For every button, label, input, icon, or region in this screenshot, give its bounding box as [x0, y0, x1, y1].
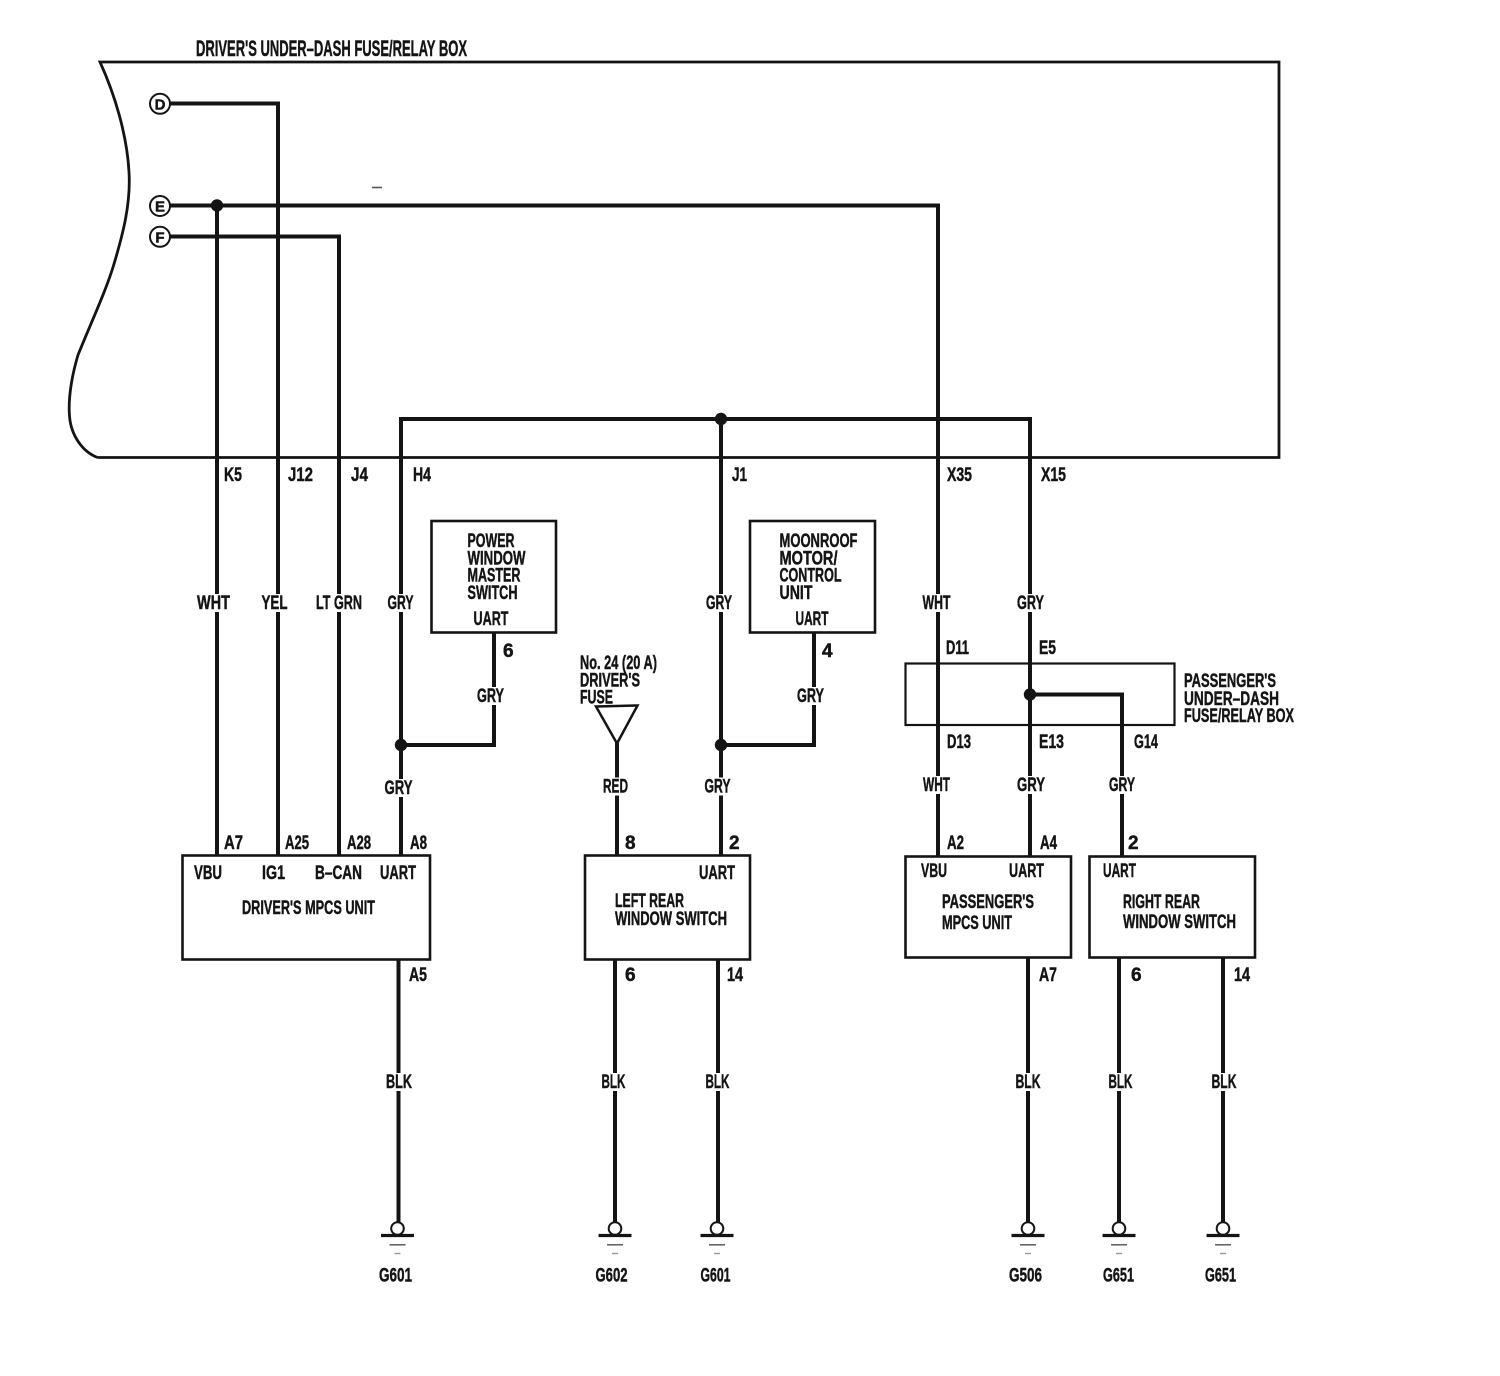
svg-text:J1: J1 [732, 465, 747, 486]
svg-text:BLK: BLK [386, 1072, 412, 1093]
svg-text:BLK: BLK [706, 1072, 730, 1093]
svg-text:A2: A2 [947, 833, 964, 854]
svg-text:6: 6 [625, 965, 636, 986]
svg-text:GRY: GRY [705, 777, 731, 798]
svg-text:A8: A8 [410, 833, 427, 854]
svg-text:UART: UART [796, 609, 829, 630]
svg-text:FUSE/RELAY BOX: FUSE/RELAY BOX [1184, 706, 1294, 727]
svg-text:A28: A28 [347, 833, 371, 854]
svg-text:DRIVER'S UNDER–DASH FUSE/RELAY: DRIVER'S UNDER–DASH FUSE/RELAY BOX [196, 36, 467, 61]
svg-text:UART: UART [699, 863, 735, 884]
svg-text:H4: H4 [413, 465, 431, 486]
svg-text:UART: UART [1009, 861, 1044, 882]
svg-text:GRY: GRY [385, 778, 413, 799]
svg-text:K5: K5 [224, 465, 242, 486]
svg-text:GRY: GRY [1109, 775, 1135, 796]
svg-text:2: 2 [1128, 833, 1139, 854]
svg-text:E5: E5 [1039, 638, 1056, 659]
svg-text:G651: G651 [1103, 1266, 1134, 1287]
svg-text:14: 14 [727, 965, 743, 986]
svg-text:UART: UART [380, 863, 416, 884]
svg-text:GRY: GRY [706, 593, 732, 614]
svg-text:B–CAN: B–CAN [315, 863, 362, 884]
svg-text:VBU: VBU [194, 863, 222, 884]
svg-text:BLK: BLK [1212, 1072, 1237, 1093]
svg-text:GRY: GRY [477, 686, 504, 707]
svg-text:4: 4 [822, 641, 833, 662]
svg-text:E13: E13 [1039, 732, 1064, 753]
svg-text:LT GRN: LT GRN [316, 593, 362, 614]
svg-text:RIGHT REAR: RIGHT REAR [1123, 892, 1200, 913]
svg-text:A25: A25 [285, 833, 309, 854]
svg-text:G601: G601 [379, 1266, 412, 1287]
svg-text:SWITCH: SWITCH [468, 583, 518, 604]
svg-text:G651: G651 [1205, 1266, 1236, 1287]
svg-text:G14: G14 [1134, 732, 1158, 753]
svg-text:UART: UART [474, 609, 509, 630]
svg-text:J12: J12 [288, 465, 313, 486]
svg-text:FUSE: FUSE [580, 688, 613, 709]
svg-text:GRY: GRY [1017, 593, 1044, 614]
svg-text:UART: UART [1103, 861, 1136, 882]
svg-text:WINDOW SWITCH: WINDOW SWITCH [1123, 912, 1236, 933]
svg-text:GRY: GRY [797, 686, 824, 707]
svg-text:A5: A5 [409, 965, 427, 986]
svg-text:2: 2 [729, 833, 740, 854]
svg-text:GRY: GRY [388, 593, 414, 614]
svg-text:8: 8 [625, 833, 636, 854]
svg-text:WHT: WHT [923, 593, 951, 614]
svg-text:BLK: BLK [602, 1072, 626, 1093]
svg-text:WINDOW SWITCH: WINDOW SWITCH [615, 909, 727, 930]
svg-text:14: 14 [1234, 965, 1250, 986]
svg-text:G602: G602 [596, 1266, 628, 1287]
svg-text:6: 6 [503, 641, 514, 662]
svg-text:D: D [155, 96, 166, 113]
svg-text:J4: J4 [351, 465, 368, 486]
svg-text:IG1: IG1 [262, 863, 285, 884]
svg-text:D11: D11 [946, 638, 969, 659]
svg-text:BLK: BLK [1016, 1072, 1041, 1093]
svg-text:GRY: GRY [1017, 775, 1045, 796]
svg-text:VBU: VBU [921, 861, 947, 882]
svg-text:E: E [155, 199, 165, 216]
svg-text:MPCS UNIT: MPCS UNIT [942, 913, 1012, 934]
svg-text:WHT: WHT [923, 775, 950, 796]
svg-text:F: F [155, 229, 164, 246]
svg-text:YEL: YEL [262, 593, 288, 614]
svg-text:A7: A7 [224, 833, 243, 854]
svg-text:WHT: WHT [197, 593, 230, 614]
svg-text:D13: D13 [947, 732, 971, 753]
svg-text:BLK: BLK [1109, 1072, 1133, 1093]
svg-text:6: 6 [1131, 965, 1142, 986]
svg-text:UNIT: UNIT [780, 583, 813, 604]
svg-text:DRIVER'S MPCS UNIT: DRIVER'S MPCS UNIT [242, 898, 375, 919]
svg-text:A4: A4 [1040, 833, 1057, 854]
svg-text:RED: RED [603, 777, 628, 798]
svg-text:A7: A7 [1039, 965, 1057, 986]
svg-text:G506: G506 [1009, 1266, 1042, 1287]
svg-text:G601: G601 [701, 1266, 731, 1287]
svg-text:X35: X35 [947, 465, 972, 486]
svg-text:X15: X15 [1041, 465, 1066, 486]
svg-text:PASSENGER'S: PASSENGER'S [942, 892, 1034, 913]
